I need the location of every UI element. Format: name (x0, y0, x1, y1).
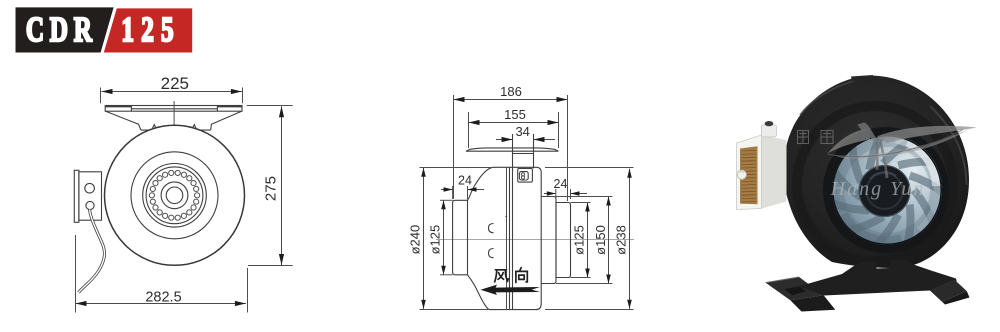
wind direction label (feng) (495, 270, 509, 282)
dimension 155 right extension line (558, 112, 560, 148)
dimension 186 left arrowhead (454, 97, 465, 102)
d238 top extension (545, 167, 634, 169)
dimension 34 line left (496, 139, 513, 141)
inner ring circle (143, 164, 207, 228)
dimension 24 left inner line (468, 189, 485, 191)
terminal box (518, 168, 533, 182)
strap notch left (153, 125, 156, 129)
bracket flange right tab divider (216, 106, 218, 112)
dimension 186 line (454, 99, 568, 101)
clamp ring circle (146, 167, 203, 224)
dimension 34 right arrowhead (534, 137, 545, 142)
svg-text:ø238: ø238 (614, 225, 629, 255)
box top cap (762, 125, 777, 137)
seam line faint (506, 167, 508, 309)
box cap dome (765, 121, 774, 126)
watermark chinese chars (798, 131, 834, 144)
left collar (453, 200, 468, 274)
svg-text:24: 24 (554, 177, 568, 191)
bracket stem base line (513, 153, 534, 155)
d150 bottom arrowhead (606, 275, 611, 284)
hub circle (161, 182, 188, 209)
svg-text:24: 24 (458, 174, 472, 188)
junction box body (79, 172, 102, 220)
svg-text:282.5: 282.5 (145, 289, 181, 305)
d125 left top arrowhead (441, 200, 446, 209)
bracket top flange bar (105, 106, 242, 112)
svg-text:CDR: CDR (26, 10, 98, 49)
fan outer circle (105, 125, 245, 265)
wind direction label (xiang) (516, 268, 527, 283)
bracket flange left tab top accent (105, 106, 131, 108)
dimension 155 left extension line (468, 112, 470, 148)
junction box side plate (74, 170, 79, 222)
d238 bottom extension (545, 309, 634, 311)
dimension 24 left outer arrowhead (444, 187, 453, 192)
seam dot (505, 216, 507, 218)
pedestal left foot top edge highlight (766, 277, 800, 283)
dimension 24 left line (441, 189, 453, 191)
svg-text:186: 186 (500, 84, 522, 99)
fan body photo (784, 76, 969, 269)
dimension 24 right line b (571, 193, 588, 195)
junction box knockout (737, 170, 746, 179)
pedestal left foot top face (766, 277, 824, 300)
svg-text:155: 155 (504, 107, 526, 122)
svg-text:ø125: ø125 (572, 225, 587, 255)
dimension 282.5 line (76, 303, 246, 305)
hub inner ring (867, 173, 903, 209)
dimension 275 top extension line (247, 105, 293, 107)
svg-text:ø240: ø240 (408, 225, 423, 255)
d150 bottom extension (556, 283, 613, 285)
dimension 282.5 left extension line (75, 235, 77, 313)
dimension 24 right ext a (555, 189, 557, 199)
bracket flange left tab divider (130, 106, 132, 112)
d125 right top extension (571, 202, 591, 204)
dimension 225 left extension line (100, 88, 102, 104)
dimension 34 line right (534, 139, 556, 141)
d125 left bottom arrowhead (441, 266, 446, 275)
impeller ring (832, 134, 943, 245)
vertical centerline (173, 101, 175, 132)
d238 top arrowhead (627, 169, 632, 178)
dimension 155 right arrowhead (548, 120, 559, 125)
dimension 275 bottom extension line (248, 265, 293, 267)
pedestal left foot front lip (790, 295, 835, 311)
logo black panel (16, 7, 114, 52)
mounting plate (466, 148, 559, 151)
body inner ring shade (797, 106, 953, 262)
dimension 24 left ext b (467, 186, 469, 199)
body outline (468, 167, 542, 309)
svg-text:275: 275 (263, 176, 280, 201)
dimension 24 right line a (544, 193, 556, 195)
logo red panel (104, 8, 192, 52)
pedestal right foot front lip (942, 291, 969, 304)
dimension 282.5 right arrowhead (235, 301, 246, 306)
watermark swallow (828, 123, 978, 179)
dimension 275 top arrowhead (279, 106, 284, 117)
body top rim highlight (800, 78, 872, 115)
svg-text:Hang Yun: Hang Yun (830, 178, 926, 200)
svg-text:125: 125 (121, 10, 180, 49)
wind direction big arrow (481, 285, 541, 295)
d125 right bottom extension (571, 277, 591, 279)
d125 right bottom arrowhead (585, 269, 590, 278)
dimension 155 left arrowhead (469, 120, 480, 125)
right 125 spigot (556, 203, 571, 278)
dimension 34 left arrowhead (502, 137, 513, 142)
bracket right leg (211, 111, 242, 130)
power cable inner (79, 210, 105, 293)
dimension 24 right ext b (570, 189, 572, 199)
dimension 24 left inner arrowhead (468, 187, 477, 192)
strap notch right (193, 125, 196, 129)
pedestal right foot top face (930, 279, 967, 302)
terminal box gland 8 lower (521, 176, 524, 179)
right 150 collar (541, 197, 556, 284)
top seam tab (851, 75, 873, 82)
d125 right top arrowhead (585, 203, 590, 212)
junction box lower hole (86, 201, 94, 209)
junction box front face (737, 135, 762, 210)
dimension d240 line (423, 168, 425, 309)
terminal box inner (519, 172, 528, 180)
dimension 24 left ext a (452, 186, 454, 199)
hub highlight (870, 172, 896, 179)
dimension 225 left arrowhead (102, 89, 113, 94)
toothed ring of small circles (149, 170, 199, 220)
junction box label (740, 146, 758, 204)
bracket stem left line (512, 134, 514, 167)
dimension d238 line (629, 169, 631, 309)
dimension 24 right outer arrowhead (547, 191, 556, 196)
d238 bottom arrowhead (627, 300, 632, 309)
dimension 186 right extension line (567, 95, 569, 201)
horizontal axis centerline (436, 239, 634, 241)
dimension 186 left extension line (453, 95, 455, 199)
impeller hub (859, 166, 910, 217)
bracket left leg (106, 111, 141, 130)
inlet ring circle (131, 152, 218, 239)
terminal box gland 8 upper (521, 173, 524, 176)
svg-text:34: 34 (515, 124, 529, 139)
seam band line left (509, 167, 511, 309)
d240 top extension (420, 167, 492, 169)
knockout inner arc (740, 172, 745, 173)
svg-text:ø150: ø150 (593, 225, 608, 255)
dimension 275 bottom arrowhead (279, 254, 284, 265)
d240 top arrowhead (421, 168, 426, 177)
d240 bottom arrowhead (421, 300, 426, 309)
dimension 186 right arrowhead (557, 97, 568, 102)
body right rim highlight (930, 106, 967, 185)
svg-text:ø125: ø125 (428, 225, 443, 255)
dimension 275 line (281, 106, 283, 265)
d125 left top extension (440, 199, 453, 201)
dimension 225 right extension line (242, 88, 244, 104)
dimension 155 line (469, 122, 559, 124)
dimension d125 right line (587, 203, 589, 278)
junction box side face (762, 135, 787, 209)
junction box upper hole (85, 183, 95, 193)
d240 bottom extension (420, 309, 489, 311)
bracket stem right line (533, 134, 535, 168)
svg-text:225: 225 (161, 74, 189, 93)
pedestal left foot clip tab (784, 286, 806, 295)
bump lower on seam (489, 249, 494, 258)
dimension 282.5 left arrowhead (76, 301, 87, 306)
hub center circle (166, 187, 183, 204)
dimension 282.5 right extension line (247, 268, 249, 313)
inlet bell dark ring (823, 127, 949, 253)
dimension 24 right inner arrowhead (571, 191, 580, 196)
d125 left bottom extension (440, 274, 453, 276)
bracket lower strap line (141, 129, 211, 131)
d150 top extension (556, 196, 613, 198)
pedestal beam (799, 260, 958, 296)
bump upper on seam (489, 224, 494, 233)
bracket flange mid line (131, 108, 217, 110)
dimension 225 right arrowhead (231, 89, 242, 94)
dimension d150 line (608, 197, 610, 284)
bracket flange right tab top accent (217, 106, 242, 108)
d150 top arrowhead (606, 197, 611, 206)
seam band line right (512, 167, 514, 309)
dimension 225 line (102, 91, 242, 93)
dimension d125 left line (443, 200, 445, 274)
power cable outer (79, 210, 105, 293)
